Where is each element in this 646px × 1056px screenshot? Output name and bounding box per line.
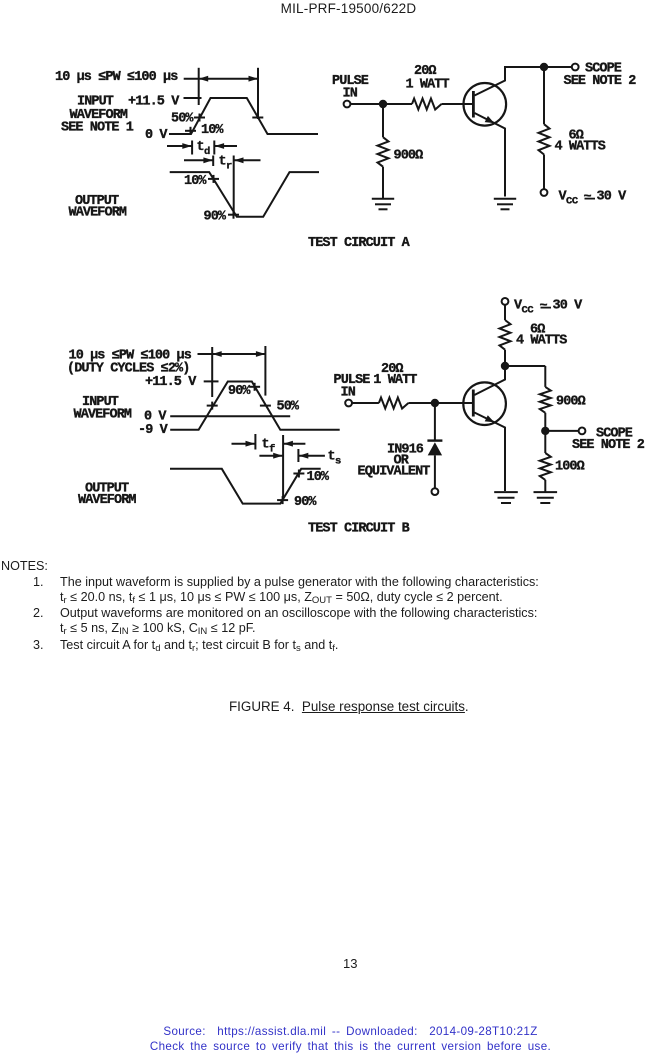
10% cross on output rising edge B xyxy=(293,470,304,478)
dimension tick left A xyxy=(198,68,200,105)
svg-text:WAVEFORM: WAVEFORM xyxy=(74,408,132,423)
wire node to base xyxy=(435,402,472,404)
wire node to R 20ohm xyxy=(383,103,412,105)
svg-text:IN: IN xyxy=(343,87,358,102)
svg-text:100Ω: 100Ω xyxy=(555,460,585,475)
svg-text:900Ω: 900Ω xyxy=(394,149,424,164)
resistor 6 ohm 4 WATTS branch (A) xyxy=(543,67,545,124)
transistor Q2 circle xyxy=(463,382,506,425)
Vcc terminal A xyxy=(541,189,548,196)
90% cross on output rising edge B xyxy=(277,496,288,504)
svg-text:50%: 50% xyxy=(277,400,300,415)
svg-text:t: t xyxy=(262,438,269,453)
page number xyxy=(343,956,357,971)
svg-text:900Ω: 900Ω xyxy=(556,395,586,410)
schematic B: Vcc terminal xyxy=(502,298,509,305)
svg-text:10%: 10% xyxy=(184,174,207,189)
dimension: pulse width line B xyxy=(198,351,266,357)
input waveform B xyxy=(170,382,340,430)
dimension tr xyxy=(184,156,261,167)
transistor Q1 base bar xyxy=(472,91,475,118)
wire to scope terminal B xyxy=(545,430,578,432)
diode terminal xyxy=(432,488,439,495)
scope terminal A xyxy=(572,64,579,71)
svg-text:t: t xyxy=(197,140,204,155)
resistor 100 ohm (B) xyxy=(544,431,546,453)
long tick from tr to output 90% xyxy=(233,156,235,213)
svg-text:4 WATTS: 4 WATTS xyxy=(555,140,606,155)
svg-text:10%: 10% xyxy=(201,123,224,138)
svg-text:90%: 90% xyxy=(228,384,251,399)
svg-text:90%: 90% xyxy=(294,495,317,510)
dimension: pulse width line A xyxy=(184,76,258,82)
svg-text:30 V: 30 V xyxy=(553,299,584,314)
svg-text:t: t xyxy=(328,450,335,465)
wire R20 to node B xyxy=(408,402,431,404)
wire input to node A xyxy=(350,103,380,105)
svg-text:IN: IN xyxy=(341,386,356,401)
svg-text:SEE NOTE 2: SEE NOTE 2 xyxy=(572,438,645,453)
50% cross on falling edge B xyxy=(260,405,271,407)
svg-text:t: t xyxy=(219,155,226,170)
resistor 900 ohm (B) xyxy=(544,366,546,387)
90% cross on output falling edge A xyxy=(228,211,239,219)
transistor Q2 emitter arrow xyxy=(485,415,495,422)
svg-text:WAVEFORM: WAVEFORM xyxy=(78,493,136,508)
transistor Q1 emitter arrow xyxy=(485,116,495,123)
+11.5V level tick xyxy=(184,97,202,99)
svg-text:90%: 90% xyxy=(204,210,227,225)
dimension tick right A xyxy=(257,68,259,119)
resistor 20 ohm 1 WATT (B) xyxy=(379,398,409,409)
transistor Q2 collector lead xyxy=(474,366,505,395)
output waveform A xyxy=(170,172,319,217)
resistor 20 ohm 1 WATT (A) xyxy=(412,99,442,110)
+11.5V level tick B xyxy=(204,380,219,382)
0V axis line B xyxy=(170,415,290,417)
transistor Q1 emitter lead xyxy=(475,113,506,197)
svg-text:CC: CC xyxy=(566,196,579,208)
diode anode wire xyxy=(434,455,436,488)
output waveform B xyxy=(170,469,321,504)
dimension td xyxy=(167,141,237,155)
svg-text:1 WATT: 1 WATT xyxy=(373,373,417,388)
ground under emitter (B) xyxy=(494,492,518,503)
transistor Q2 emitter lead xyxy=(474,413,505,492)
svg-text:+11.5 V: +11.5 V xyxy=(145,375,197,390)
resistor 6 ohm 4 WATTS (B) xyxy=(504,305,506,320)
svg-text:d: d xyxy=(204,146,210,158)
ground under emitter (A) xyxy=(494,199,516,210)
dimension tick right B xyxy=(264,346,266,396)
header: document number xyxy=(0,1,646,16)
junction node base B xyxy=(431,399,439,407)
resistor 900 ohm branch (A) xyxy=(382,108,384,137)
footer line 1 xyxy=(2,1025,646,1038)
svg-text:1 WATT: 1 WATT xyxy=(406,78,450,93)
transistor Q2 base bar xyxy=(472,390,475,417)
junction node A (base divider) xyxy=(379,100,387,108)
svg-text:+11.5 V: +11.5 V xyxy=(128,95,180,110)
svg-text:s: s xyxy=(335,456,341,468)
50% cross on falling edge A xyxy=(252,117,263,119)
svg-text:~: ~ xyxy=(584,190,592,205)
svg-text:4 WATTS: 4 WATTS xyxy=(516,334,567,349)
svg-text:CC: CC xyxy=(522,305,535,317)
svg-text:50%: 50% xyxy=(171,112,194,127)
svg-text:TEST CIRCUIT B: TEST CIRCUIT B xyxy=(308,522,410,537)
svg-text:SEE NOTE 2: SEE NOTE 2 xyxy=(564,74,637,89)
svg-text:~: ~ xyxy=(540,299,548,314)
10% cross on output falling edge A xyxy=(208,175,219,183)
dimension tf xyxy=(232,441,306,447)
footer line 2 xyxy=(2,1040,646,1053)
svg-text:r: r xyxy=(226,161,232,173)
wire input to R20 (B) xyxy=(352,402,379,404)
input terminal B xyxy=(345,400,352,407)
dimension tick left B xyxy=(211,347,213,397)
diode cathode bar xyxy=(427,439,442,441)
junction node collector B xyxy=(501,362,509,370)
wire R20 to base xyxy=(442,103,473,105)
notes block xyxy=(1,558,641,560)
50% cross on rising edge A xyxy=(194,114,205,122)
svg-text:TEST CIRCUIT A: TEST CIRCUIT A xyxy=(308,236,411,251)
svg-text:SEE NOTE 1: SEE NOTE 1 xyxy=(61,121,134,136)
90% cross on falling edge B xyxy=(249,383,260,391)
svg-text:-9 V: -9 V xyxy=(138,423,169,438)
svg-text:10 μs ≤PW ≤100 μs: 10 μs ≤PW ≤100 μs xyxy=(55,70,178,85)
scope terminal B xyxy=(579,428,586,435)
svg-text:10%: 10% xyxy=(307,470,330,485)
figure caption xyxy=(229,699,469,714)
wire node to 900 ohm branch xyxy=(505,365,545,367)
svg-text:30 V: 30 V xyxy=(597,190,628,205)
tf left tick xyxy=(254,434,256,450)
10% cross on rising edge A xyxy=(185,127,196,135)
svg-text:0 V: 0 V xyxy=(145,128,168,143)
diode 1N916 branch: wire from node down xyxy=(434,407,436,441)
ground under 100 ohm (B) xyxy=(534,492,558,503)
input terminal A xyxy=(344,101,351,108)
50% cross on rising edge B xyxy=(207,402,218,410)
transistor Q1 circle xyxy=(464,83,507,126)
junction node collector A xyxy=(540,63,548,71)
dimension ts xyxy=(259,449,325,462)
svg-text:EQUIVALENT: EQUIVALENT xyxy=(358,465,431,480)
transistor Q1 collector lead xyxy=(475,67,572,96)
svg-text:WAVEFORM: WAVEFORM xyxy=(69,206,127,221)
long tick tf/ts to output 90% xyxy=(282,435,284,500)
input waveform A xyxy=(169,98,318,134)
junction node scope B xyxy=(541,427,549,435)
diode triangle xyxy=(428,442,442,455)
ground under 900 ohm (A) xyxy=(372,199,394,210)
